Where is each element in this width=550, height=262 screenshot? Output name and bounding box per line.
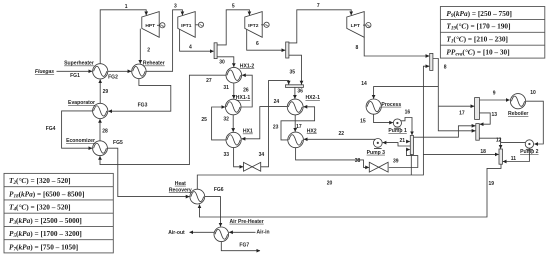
heat exchanger Reheater — [132, 64, 146, 78]
svg-text:HX2-1: HX2-1 — [305, 95, 320, 101]
svg-text:Superheater: Superheater — [64, 61, 94, 67]
svg-text:21: 21 — [400, 138, 406, 144]
svg-text:Fluegas: Fluegas — [35, 69, 54, 75]
turbine IPT1 — [178, 12, 195, 38]
generator G3 of IPT2 — [261, 22, 269, 27]
svg-text:P18(kPa) = [6500 – 8500]: P18(kPa) = [6500 – 8500] — [9, 189, 84, 199]
wire 5 header A to IPT2 — [217, 10, 249, 45]
wire 1 Superheater to HPT — [100, 10, 146, 64]
svg-text:31: 31 — [223, 85, 229, 91]
svg-text:Process: Process — [381, 102, 401, 108]
valve V2 between 38 and 39 — [369, 162, 388, 172]
wire 4 IPT1 to extraction header A — [180, 29, 214, 51]
wire 30 header A to HX1-2 — [217, 57, 234, 67]
wire header E drain to line 20 — [410, 155, 412, 176]
svg-text:22: 22 — [339, 131, 345, 137]
svg-text:19: 19 — [489, 181, 495, 187]
svg-text:27: 27 — [206, 78, 212, 84]
heat exchanger Evaporator — [93, 103, 108, 118]
svg-text:Air Pre-Heater: Air Pre-Heater — [229, 219, 263, 225]
wire FG3 Reheater to Evaporator — [108, 79, 171, 112]
svg-text:25: 25 — [201, 117, 207, 123]
svg-text:Air-in: Air-in — [256, 230, 269, 236]
wire 39 valve V2 to header E — [389, 150, 418, 168]
svg-text:24: 24 — [274, 99, 280, 105]
wire 22 Pump 3 to HX2 — [304, 138, 378, 140]
turbine LPT — [347, 12, 364, 38]
svg-text:8: 8 — [356, 45, 359, 51]
svg-text:P3(kPa) = [2500 – 5000]: P3(kPa) = [2500 – 5000] — [9, 216, 82, 226]
header C after LPT — [430, 53, 433, 70]
svg-text:20: 20 — [327, 181, 333, 187]
wire 15 Process to Pump 1 — [374, 114, 393, 122]
svg-text:FG3: FG3 — [138, 102, 148, 108]
wire branch to header D — [438, 105, 474, 107]
svg-text:FG5: FG5 — [113, 140, 123, 146]
wire 8 LPT to header C — [364, 37, 429, 56]
svg-text:11: 11 — [511, 156, 517, 162]
svg-text:8: 8 — [444, 64, 447, 70]
wire FG4 Evaporator to Economizer — [62, 111, 93, 148]
svg-text:Economizer: Economizer — [66, 138, 95, 144]
svg-text:16: 16 — [405, 110, 411, 116]
generator G4 of LPT — [363, 23, 371, 28]
wire 24 HX2-1 to HX1 — [242, 107, 288, 139]
wire 25 HX1 to HX1-1 — [212, 107, 226, 140]
turbine HPT — [142, 12, 159, 38]
wire 12 header D2 to header F — [479, 138, 500, 148]
svg-text:6: 6 — [256, 41, 259, 47]
wire FG5 Economizer to Heat Recovery — [107, 148, 189, 196]
wire 36 mixer M1 to HX2-1 — [294, 88, 296, 99]
svg-text:P7(kPa) = [750 – 1050]: P7(kPa) = [750 – 1050] — [9, 242, 78, 252]
svg-text:HX2: HX2 — [307, 128, 317, 134]
svg-text:30: 30 — [219, 60, 225, 66]
heat exchanger Heat Recovery — [190, 189, 205, 204]
wire 11 Pump 2 to header F — [503, 148, 530, 161]
svg-text:Pump 3: Pump 3 — [367, 150, 386, 156]
heat exchanger Economizer — [93, 141, 108, 156]
svg-text:FG4: FG4 — [46, 126, 56, 132]
wire 33 HX1 to expansion valve V1 — [234, 148, 244, 167]
svg-text:Pump 2: Pump 2 — [520, 149, 539, 155]
svg-text:1: 1 — [125, 4, 128, 10]
wire 13 header D to header D2 — [480, 113, 491, 124]
wire 31 HX1-2 to HX1-1 — [233, 83, 235, 99]
svg-text:FG2: FG2 — [108, 74, 118, 80]
wire 17 HX2-1 to HX2 — [294, 115, 296, 132]
heat exchanger HX1-1 — [225, 99, 241, 115]
svg-text:IPT2: IPT2 — [248, 23, 259, 29]
svg-text:29: 29 — [103, 89, 109, 95]
valve V1 between 33 and 34 — [244, 162, 261, 171]
wire FG7 out of Air Pre-Heater — [221, 242, 260, 251]
svg-text:36: 36 — [297, 89, 303, 95]
svg-text:LPT: LPT — [351, 23, 360, 29]
svg-text:14: 14 — [361, 81, 367, 87]
svg-text:2: 2 — [147, 48, 150, 54]
wire 8b header C outlet down — [433, 59, 475, 131]
svg-text:28: 28 — [102, 129, 108, 135]
svg-text:P5(kPa) = [1700 – 3200]: P5(kPa) = [1700 – 3200] — [9, 229, 82, 239]
svg-text:Reheater: Reheater — [143, 61, 165, 67]
svg-text:35: 35 — [290, 69, 296, 75]
heat exchanger Process — [366, 99, 381, 114]
wire 35 header B to mixer M1 — [289, 55, 302, 84]
table operating ranges bottom-left — [4, 173, 113, 253]
svg-text:FG7: FG7 — [239, 242, 249, 248]
svg-text:HX1: HX1 — [243, 129, 253, 135]
svg-text:T2(°C) = [320 – 520]: T2(°C) = [320 – 520] — [9, 176, 71, 186]
svg-text:9: 9 — [493, 91, 496, 97]
generator G1 of HPT — [157, 23, 165, 28]
wire 18 branch of recycle to header F — [423, 153, 498, 155]
heat exchanger Reboiler — [510, 94, 525, 109]
wire 38 HX2 drain to valve V2 — [296, 148, 369, 168]
header A after IPT1 — [214, 43, 217, 59]
header D2 — [476, 124, 480, 141]
wire 3 Reheater to IPT1 — [146, 10, 182, 72]
svg-text:5: 5 — [232, 3, 235, 9]
svg-text:Reboiler: Reboiler — [508, 111, 528, 117]
wire 9 header D to Reboiler — [480, 99, 510, 101]
wire 16 Pump 1 to header E — [400, 118, 412, 136]
svg-text:17: 17 — [459, 111, 465, 117]
svg-text:Air-out: Air-out — [168, 230, 185, 236]
svg-text:34: 34 — [259, 152, 265, 158]
pump Pump 1 — [393, 119, 401, 128]
svg-text:13: 13 — [492, 112, 498, 118]
heat exchanger Superheater — [93, 64, 108, 79]
wire 34 valve V1 to mixer M1 — [261, 81, 289, 167]
wire 20 Heat Recovery recycle up to header C — [197, 66, 429, 189]
svg-text:33: 33 — [224, 152, 230, 158]
wire Fluegas feed FG1 into Superheater — [57, 70, 93, 72]
heat exchanger HX1-2 — [226, 67, 242, 83]
header B after IPT2 — [286, 42, 289, 58]
wire 6 IPT2 to extraction header B — [247, 29, 286, 50]
svg-text:IPT1: IPT1 — [181, 23, 192, 29]
svg-text:HX1-1: HX1-1 — [236, 95, 251, 101]
wire stub into header E — [406, 141, 410, 143]
header D feedwater — [475, 98, 480, 120]
svg-text:4: 4 — [189, 45, 192, 51]
wire Air-in into Air Pre-Heater — [229, 231, 255, 233]
heat exchanger Air Pre-Heater — [214, 227, 229, 242]
pump Pump 2 — [525, 140, 533, 150]
heat exchanger HX2-1 — [287, 99, 303, 115]
wire 17 header E to header D2 — [414, 126, 476, 137]
wire 14 line to Process — [374, 87, 439, 99]
svg-text:38: 38 — [355, 158, 361, 164]
wire 32 HX1-1 to HX1 — [232, 115, 234, 132]
svg-text:26: 26 — [243, 88, 249, 94]
svg-text:T19(°C) = [170 – 190]: T19(°C) = [170 – 190] — [446, 22, 510, 32]
wire 28 Economizer to Evaporator — [99, 119, 101, 141]
svg-text:23: 23 — [273, 124, 279, 130]
svg-text:T1(°C) = [210 – 230]: T1(°C) = [210 – 230] — [446, 35, 508, 45]
svg-text:15: 15 — [360, 119, 366, 125]
wire FG6 Heat Recovery to Air Pre-Heater — [205, 197, 221, 227]
svg-text:P9(kPa) = [250 – 750]: P9(kPa) = [250 – 750] — [446, 9, 512, 19]
wire 19 header F to Heat Recovery — [200, 164, 502, 217]
generator G2 of IPT1 — [196, 22, 204, 27]
header F — [499, 149, 502, 164]
svg-text:FG6: FG6 — [214, 187, 224, 193]
wire 2 HPT to Reheater — [139, 29, 141, 64]
table operating ranges top-right — [440, 7, 544, 59]
wire Pump 2 discharge — [501, 142, 526, 144]
svg-text:HPT: HPT — [145, 23, 155, 29]
svg-text:17: 17 — [296, 124, 302, 130]
pump Pump 3 — [373, 139, 382, 149]
wire 26 HX1-1 to HX1-2 — [241, 75, 252, 107]
wire 7 header B to LPT — [289, 10, 351, 43]
svg-text:Pump 1: Pump 1 — [388, 128, 407, 134]
turbine IPT2 — [245, 12, 262, 38]
svg-text:10: 10 — [530, 90, 536, 96]
heat exchanger HX2 — [288, 132, 304, 148]
svg-text:FG1: FG1 — [70, 73, 80, 79]
wire 23 HX2 to HX2-1 — [281, 107, 315, 140]
svg-text:3: 3 — [174, 4, 177, 10]
svg-text:12: 12 — [496, 137, 502, 143]
svg-text:Evaporator: Evaporator — [68, 100, 95, 106]
header E distribution — [410, 136, 413, 155]
svg-text:7: 7 — [317, 3, 320, 9]
heat exchanger HX1 — [226, 132, 241, 147]
svg-text:HX1-2: HX1-2 — [240, 63, 255, 69]
wire 10 Reboiler to Pump 2 — [526, 101, 544, 144]
wire Air-out from Air Pre-Heater — [190, 231, 215, 233]
mixer M1 above HX2-1 — [286, 85, 304, 88]
wire 29 Evaporator to Superheater — [99, 80, 101, 104]
wire 21 header E to Pump 3 — [383, 143, 411, 146]
svg-text:32: 32 — [223, 117, 229, 123]
svg-text:39: 39 — [393, 159, 399, 165]
wire 27 HX1-2 to Economizer — [100, 75, 226, 164]
svg-text:18: 18 — [480, 149, 486, 155]
wire FG2 Superheater to Reheater — [108, 70, 131, 72]
svg-text:T4(°C) = [320 – 520]: T4(°C) = [320 – 520] — [9, 203, 71, 213]
